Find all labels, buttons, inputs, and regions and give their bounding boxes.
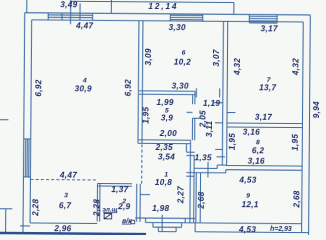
corridor bottom wall left step (186, 175, 194, 177)
window left wall (23, 139, 30, 177)
room2 left wall (96, 183, 98, 221)
svg-text:30,9: 30,9 (75, 84, 92, 93)
svg-text:1,37: 1,37 (111, 185, 128, 194)
svg-text:3,30: 3,30 (172, 82, 189, 91)
svg-text:2,28: 2,28 (92, 199, 101, 217)
svg-text:2,28: 2,28 (31, 199, 40, 217)
room5 right wall upper (192, 95, 194, 105)
wall room7/room8 (227, 122, 302, 125)
svg-text:6,92: 6,92 (34, 79, 43, 96)
tick crossing wall 6/7 lower (215, 148, 222, 150)
tick near door room5 (187, 111, 193, 113)
room1 bottom wall (135, 217, 195, 219)
svg-text:4,32: 4,32 (291, 58, 300, 76)
svg-text:3,07: 3,07 (212, 49, 221, 66)
svg-text:2,27: 2,27 (176, 186, 185, 204)
svg-text:3,11: 3,11 (205, 120, 214, 137)
tick right of wall 6/7 (227, 112, 235, 114)
svg-text:3,16: 3,16 (248, 157, 265, 166)
room5 bottom wall (138, 139, 190, 141)
svg-text:4,53: 4,53 (238, 225, 256, 234)
dimension line top (71, 1, 234, 2)
room5 right wall lower (191, 118, 193, 140)
dark bottom band (0, 232, 146, 236)
dashed boundary room4/room3 (30, 178, 97, 181)
svg-text:3,16: 3,16 (243, 128, 260, 137)
svg-text:12,14: 12,14 (148, 2, 178, 11)
door opening ticks 1,19 (195, 88, 197, 97)
svg-text:3,17: 3,17 (255, 113, 272, 122)
tick on wall 6/7 upper (213, 102, 223, 104)
wall top inner (32, 20, 304, 22)
wall right outer (309, 15, 311, 236)
svg-text:4,47: 4,47 (75, 21, 93, 30)
wall top outer (25, 13, 311, 15)
wall room8/room9 (226, 164, 302, 167)
underline el.shch (103, 211, 116, 213)
window W1 top-left (48, 3, 93, 20)
porch right edge (194, 222, 196, 231)
tick left wall bottom (20, 225, 30, 227)
svg-text:1,99: 1,99 (157, 98, 174, 107)
room9 bottom outer wall (195, 231, 308, 234)
dim tick crossing corridor wall (207, 162, 209, 177)
neighbour wall stub above left corner (26, 0, 28, 13)
svg-text:6,92: 6,92 (124, 79, 133, 96)
svg-text:2,00: 2,00 (159, 129, 177, 138)
closet wall horizontals (186, 151, 194, 153)
svg-text:12,1: 12,1 (242, 200, 259, 209)
dim tick 1,35 right (216, 156, 224, 158)
svg-text:10,8: 10,8 (155, 178, 172, 187)
svg-text:2,96: 2,96 (53, 224, 71, 233)
svg-text:13,7: 13,7 (259, 83, 276, 92)
svg-text:2,35: 2,35 (155, 143, 173, 152)
neighbour wall stub above x110 (110, 0, 112, 13)
svg-text:1,35: 1,35 (195, 153, 212, 162)
svg-text:6,7: 6,7 (59, 201, 71, 210)
svg-text:6,2: 6,2 (252, 146, 264, 155)
wall left outer (23, 13, 25, 232)
svg-text:2,9: 2,9 (117, 202, 130, 211)
svg-text:3,30: 3,30 (169, 23, 186, 32)
svg-text:4,47: 4,47 (59, 171, 77, 180)
svg-text:3,09: 3,09 (144, 48, 153, 65)
svg-text:3: 3 (64, 192, 68, 199)
room2 right wall (135, 184, 137, 222)
tick on wall 6/7 mid (215, 122, 223, 124)
svg-text:1,95: 1,95 (141, 106, 150, 123)
window W2 top-middle (170, 14, 202, 22)
wall room6 bottom / room5 top (139, 90, 195, 92)
svg-text:h=2,93: h=2,93 (270, 226, 292, 233)
svg-text:3,54: 3,54 (158, 153, 175, 162)
svg-text:1,95: 1,95 (291, 134, 300, 151)
neighbour fragment bottom-left horizontal (0, 208, 12, 210)
wall notch below wall 6/7 (216, 165, 218, 168)
neighbour fragment bottom-left vertical (5, 209, 7, 232)
porch steps (146, 215, 186, 232)
room3 bottom inner wall (30, 222, 97, 225)
neighbour fragment left-middle (0, 119, 8, 121)
svg-text:1,95: 1,95 (228, 133, 237, 150)
vk box (131, 220, 135, 224)
svg-text:3,49: 3,49 (60, 0, 77, 9)
vk underline (122, 223, 131, 225)
svg-text:10,2: 10,2 (174, 58, 191, 67)
svg-text:2,68: 2,68 (197, 191, 206, 209)
room5 door tick (192, 117, 200, 119)
svg-text:3,9: 3,9 (161, 113, 173, 122)
room9 left wall (195, 173, 197, 223)
svg-text:4,32: 4,32 (233, 58, 242, 76)
svg-text:2,68: 2,68 (292, 190, 301, 208)
closet wall verticals (185, 144, 187, 152)
wall between room6 and room7 (222, 21, 223, 165)
svg-text:в/к: в/к (122, 218, 132, 225)
electric panel box (104, 213, 112, 218)
svg-text:9: 9 (246, 193, 250, 200)
svg-text:3,17: 3,17 (261, 24, 278, 33)
svg-text:6: 6 (182, 50, 186, 57)
svg-text:1,19: 1,19 (203, 99, 220, 108)
wall between room4 and room6 (137, 21, 140, 144)
window W1 centre division / dim tick (70, 0, 72, 24)
dashed boundary room1 left (141, 144, 143, 183)
wall left inner (30, 20, 32, 223)
dimension tick top right (233, 3, 235, 15)
room1 right wall (189, 156, 192, 223)
wall right inner (302, 22, 304, 233)
svg-text:9,94: 9,94 (312, 101, 321, 118)
svg-text:4,53: 4,53 (238, 176, 256, 185)
room2 top wall (97, 182, 131, 184)
door tick room2 (140, 194, 150, 196)
window W3 top-right (249, 14, 277, 23)
svg-text:1,98: 1,98 (152, 204, 169, 213)
